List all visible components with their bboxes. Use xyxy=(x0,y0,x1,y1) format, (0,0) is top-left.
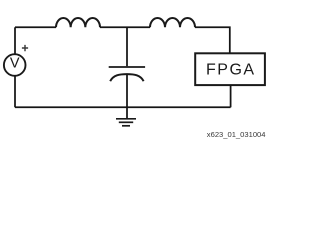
wire bottom rail xyxy=(15,106,231,108)
wire L2 to FPGA corner, down into FPGA top xyxy=(195,27,230,53)
ground symbol xyxy=(116,118,136,120)
wire FPGA bottom to bottom rail xyxy=(230,85,232,107)
svg-text:x623_01_031004: x623_01_031004 xyxy=(207,130,266,139)
wire source bottom to bottom rail xyxy=(14,76,16,108)
plus polarity mark xyxy=(22,45,28,51)
capacitor C1 bottom curved plate xyxy=(110,74,143,81)
voltage source V1 circle xyxy=(4,54,26,76)
inductor L2 xyxy=(150,18,195,27)
wire capacitor to ground stub xyxy=(126,75,128,119)
wire top horizontal (source to inductor L1) xyxy=(15,26,56,28)
svg-text:FPGA: FPGA xyxy=(206,62,256,79)
svg-text:V: V xyxy=(10,56,20,72)
inductor L1 xyxy=(56,18,100,27)
wire between L1 and L2 xyxy=(100,26,150,28)
wire capacitor branch from top wire xyxy=(126,27,128,66)
wire left vertical from top wire to source xyxy=(14,27,16,55)
capacitor C1 top plate xyxy=(109,66,145,68)
FPGA box U1 xyxy=(195,53,265,85)
